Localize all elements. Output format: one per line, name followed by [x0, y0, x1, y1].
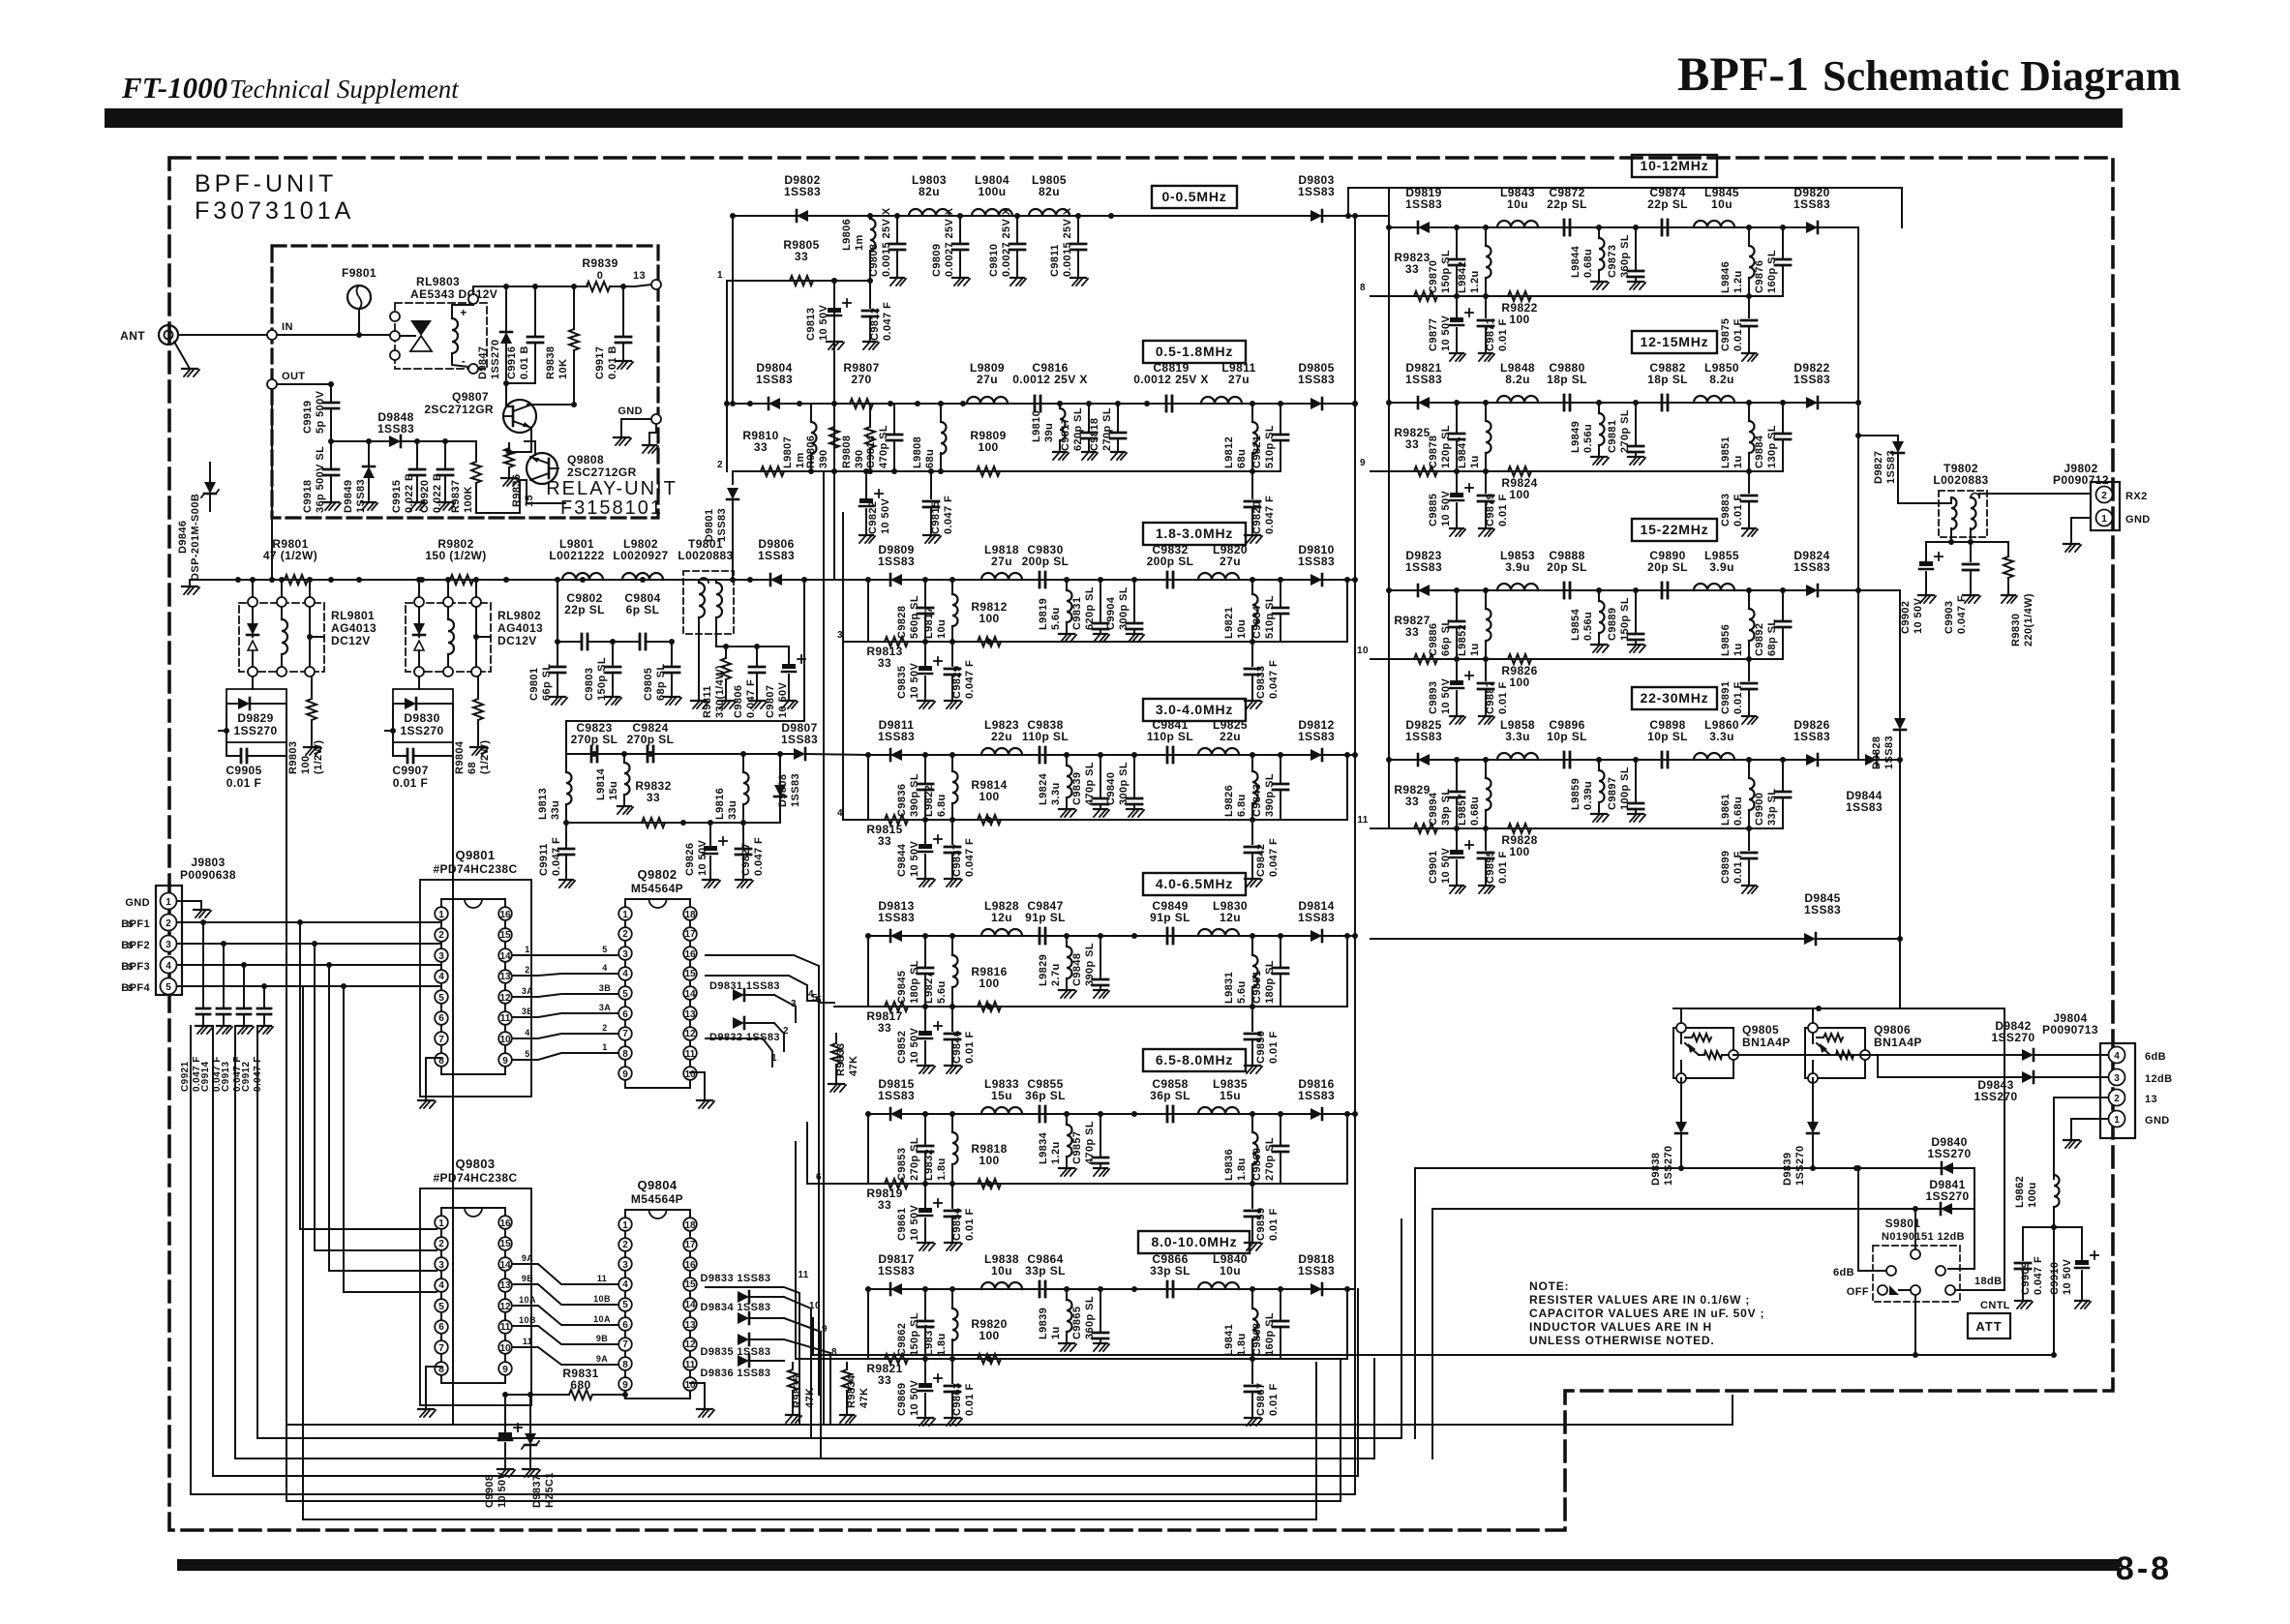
zener D9837 HZ5C1 [522, 1392, 556, 1508]
inductor L9834 1.2u [1038, 1114, 1076, 1176]
L9862 lower rail [2023, 1207, 2082, 1230]
svg-text:360p SL: 360p SL [1084, 1296, 1096, 1339]
svg-text:M54564P: M54564P [631, 882, 683, 895]
IC Q9803 uPD74HC238C [433, 1157, 517, 1383]
svg-text:10u: 10u [991, 1264, 1012, 1278]
svg-text:33: 33 [1405, 795, 1419, 808]
svg-text:300p SL: 300p SL [1118, 762, 1130, 805]
svg-text:47 (1/2W): 47 (1/2W) [263, 549, 317, 562]
svg-text:R9839: R9839 [582, 256, 618, 270]
resistor R9819 33 [866, 1179, 908, 1212]
svg-text:C9854: C9854 [951, 1207, 963, 1241]
J9803 pin 2 BPF1 [121, 915, 441, 931]
capacitor C9885 10 50V [1428, 471, 1473, 536]
svg-text:16: 16 [499, 1218, 511, 1229]
RL9802 top wires [416, 577, 479, 597]
svg-text:C9848: C9848 [1071, 953, 1083, 986]
svg-text:270p SL: 270p SL [1619, 409, 1631, 453]
inductor L9849 0.56u [1570, 403, 1609, 465]
svg-text:13: 13 [499, 972, 511, 982]
svg-text:+: + [460, 306, 467, 319]
switch lever wire [1914, 1209, 1916, 1249]
capacitor C9904 300p SL [1105, 580, 1144, 642]
svg-text:1SS83: 1SS83 [1298, 911, 1335, 924]
freq label 1.8-3.0MHz [1143, 523, 1246, 545]
svg-text:C9815: C9815 [930, 501, 942, 534]
svg-text:2: 2 [622, 929, 628, 940]
svg-text:2: 2 [525, 965, 529, 975]
capacitor C9836 390p SL [896, 755, 933, 820]
svg-text:0.01 F: 0.01 F [1733, 494, 1744, 526]
wire upper rail to D9807 [566, 751, 794, 757]
inductor L9847 1u [1457, 403, 1492, 471]
connector J9803 P0090638 [156, 856, 236, 995]
svg-text:9: 9 [502, 1365, 508, 1375]
inductor L9832 1.8u [923, 1114, 958, 1184]
diode D9843 1SS270 on 12dB wire [1865, 1055, 2108, 1103]
13 wire to L9862 [2054, 1098, 2108, 1179]
node 2 [717, 460, 723, 470]
svg-text:C9805: C9805 [643, 668, 654, 701]
svg-text:5: 5 [438, 1302, 444, 1312]
svg-text:R9837: R9837 [450, 480, 462, 513]
svg-text:1.8-3.0MHz: 1.8-3.0MHz [1156, 526, 1233, 541]
diode D9824 1SS83 [1793, 549, 1830, 596]
svg-text:R9834: R9834 [846, 1374, 858, 1408]
diode D9808 1SS83 [774, 754, 801, 823]
svg-text:390: 390 [854, 449, 865, 468]
freq label 15-22MHz [1632, 519, 1717, 541]
svg-text:0.01 F: 0.01 F [1733, 851, 1744, 884]
svg-text:12: 12 [684, 1029, 696, 1039]
svg-text:1SS83: 1SS83 [781, 733, 818, 746]
svg-text:C9912: C9912 [241, 1061, 252, 1092]
resistor R9837 100K [450, 441, 481, 513]
pin OUT [267, 371, 305, 389]
fuse F9801 [342, 266, 377, 335]
CNTL label [1980, 1300, 2010, 1311]
svg-text:0.01 F: 0.01 F [964, 1031, 976, 1064]
svg-text:OFF: OFF [1847, 1286, 1869, 1298]
svg-text:13: 13 [499, 1280, 511, 1291]
svg-text:47K: 47K [848, 1056, 859, 1076]
svg-text:C9860: C9860 [1251, 1148, 1263, 1181]
svg-text:68: 68 [467, 762, 478, 774]
svg-text:L9814: L9814 [595, 767, 607, 800]
capacitor C9835 10 50V [896, 642, 942, 708]
capacitor C9898 10p SL [1647, 718, 1688, 767]
diode D9841 1SS270 [1925, 1178, 1969, 1215]
svg-text:200p SL: 200p SL [1022, 555, 1070, 568]
svg-text:RL9803: RL9803 [416, 275, 460, 288]
svg-text:C9893: C9893 [1428, 681, 1439, 714]
R9837 to Q9808 base wire [476, 480, 527, 513]
svg-text:L9819: L9819 [1038, 598, 1049, 630]
svg-text:C9875: C9875 [1720, 318, 1732, 351]
svg-text:5: 5 [166, 982, 171, 993]
svg-text:10 50V: 10 50V [777, 681, 789, 718]
svg-text:12u: 12u [1220, 911, 1241, 924]
svg-text:1SS83: 1SS83 [878, 555, 915, 568]
svg-text:F3073101A: F3073101A [195, 197, 354, 225]
svg-text:BPF3: BPF3 [121, 961, 150, 973]
capacitor C9908 10 50V [484, 1392, 522, 1508]
svg-text:C9869: C9869 [896, 1383, 908, 1416]
capacitor C9863 0.047 F [945, 1359, 976, 1426]
svg-text:20p SL: 20p SL [1547, 560, 1587, 574]
inductor L9840 10u [1198, 1252, 1248, 1289]
diode D9849 1SS83 [343, 441, 377, 513]
svg-text:GND: GND [125, 897, 150, 909]
svg-text:1.2u: 1.2u [1050, 1141, 1062, 1164]
svg-text:8: 8 [1360, 283, 1366, 293]
svg-text:C9812: C9812 [869, 308, 881, 341]
svg-text:100p SL: 100p SL [1619, 767, 1631, 810]
transistor Q9808 2SC2712GR [527, 453, 637, 484]
svg-text:#PD74HC238C: #PD74HC238C [433, 862, 517, 876]
capacitor C9920 0.022 B [419, 441, 455, 513]
svg-text:9: 9 [1360, 458, 1366, 468]
svg-text:C9833: C9833 [1255, 666, 1267, 699]
capacitor C9882 18p SL [1647, 361, 1688, 410]
resistor R9838 10K [545, 286, 579, 400]
svg-text:1SS270: 1SS270 [1925, 1189, 1969, 1203]
svg-text:390: 390 [818, 449, 829, 468]
svg-text:11: 11 [685, 1049, 696, 1060]
svg-text:0.01 F: 0.01 F [393, 776, 428, 790]
svg-text:L9827: L9827 [923, 972, 935, 1004]
svg-text:BPF-UNIT: BPF-UNIT [195, 170, 337, 197]
svg-text:L9852: L9852 [1457, 624, 1468, 656]
svg-text:0.047 F: 0.047 F [964, 838, 976, 877]
svg-text:L9831: L9831 [1223, 972, 1235, 1004]
capacitor C9880 18p SL [1547, 361, 1587, 410]
resistor R9805 33 [783, 238, 873, 286]
diode D9813 1SS83 [878, 899, 915, 942]
diode D9805 1SS83 [1298, 361, 1335, 409]
diode D9834 1SS83 [701, 1302, 784, 1324]
diode D9822 1SS83 [1793, 361, 1830, 408]
svg-text:8-8: 8-8 [2116, 1550, 2172, 1587]
svg-text:0.0015 25V X: 0.0015 25V X [1062, 207, 1073, 277]
inductor L9841 1.8u [1223, 1289, 1258, 1359]
capacitor C9878 120p SL [1428, 403, 1464, 471]
capacitor C9917 0.01 B [594, 284, 633, 379]
svg-text:L9854: L9854 [1570, 608, 1582, 641]
svg-text:0.56u: 0.56u [1582, 424, 1594, 453]
capacitor C9838 110p SL [1022, 718, 1069, 763]
right rows right edge bus [1855, 227, 1861, 760]
svg-text:L9807: L9807 [782, 436, 794, 468]
svg-text:1SS83: 1SS83 [1804, 903, 1841, 917]
resistor R9807 270 [843, 361, 879, 408]
svg-text:100: 100 [979, 1329, 999, 1342]
capacitor C9901 10 50V [1428, 828, 1473, 893]
capacitor C9921 0.047 F [180, 919, 213, 1092]
capacitor C9873 360p SL [1607, 227, 1645, 289]
left riser 243 [234, 1026, 236, 1459]
svg-text:10: 10 [684, 1380, 696, 1391]
svg-text:0.047 F: 0.047 F [1268, 660, 1280, 699]
svg-text:L9826: L9826 [1223, 785, 1235, 817]
row 6.5-8.0MHz lower rail [834, 1111, 1350, 1187]
svg-text:0.68u: 0.68u [1469, 797, 1481, 826]
T9802 secondary to J9802 [1979, 494, 2091, 497]
svg-text:33: 33 [878, 1373, 891, 1387]
inductor L9848 8.2u [1497, 361, 1538, 403]
svg-text:3A: 3A [522, 986, 533, 996]
svg-text:5p 500V: 5p 500V [315, 390, 326, 434]
J9803 pin 3 BPF2 [121, 936, 441, 952]
capacitor C9860 270p SL [1251, 1114, 1288, 1184]
svg-text:NOTE:: NOTE: [1529, 1279, 1569, 1293]
svg-text:BPF2: BPF2 [121, 940, 150, 951]
freq label 12-15MHz [1632, 331, 1717, 353]
svg-text:13: 13 [633, 270, 646, 282]
svg-text:0.047 F: 0.047 F [551, 837, 562, 876]
svg-text:D9831 1SS83: D9831 1SS83 [709, 980, 780, 992]
svg-text:18: 18 [684, 910, 696, 920]
svg-text:10A: 10A [519, 1295, 536, 1305]
diode D9817 1SS83 [878, 1252, 915, 1295]
svg-text:33p SL: 33p SL [1150, 1264, 1190, 1278]
svg-text:2.7u: 2.7u [1050, 963, 1062, 986]
svg-text:L9849: L9849 [1570, 421, 1582, 453]
svg-text:1: 1 [438, 1218, 444, 1229]
svg-text:10 50V: 10 50V [497, 1471, 508, 1508]
control wire risers [1415, 1168, 1432, 1459]
inductor L9807 1m shunt [782, 404, 817, 471]
svg-text:L9821: L9821 [1223, 607, 1235, 639]
svg-text:10-12MHz: 10-12MHz [1641, 158, 1709, 173]
svg-text:AG4013: AG4013 [331, 621, 377, 635]
svg-text:Q9805: Q9805 [1742, 1023, 1779, 1037]
svg-text:10 50V: 10 50V [880, 497, 891, 534]
resistor R9817 33 [866, 1002, 908, 1035]
svg-text:2: 2 [2101, 491, 2107, 501]
svg-text:22u: 22u [991, 730, 1012, 743]
svg-text:5.6u: 5.6u [1236, 980, 1248, 1004]
svg-text:91p SL: 91p SL [1150, 911, 1190, 924]
left riser 220 [212, 1026, 214, 1476]
svg-text:AG4013: AG4013 [497, 621, 543, 635]
svg-text:C9811: C9811 [1049, 244, 1061, 277]
row 4.0-6.5MHz lower rail [834, 933, 1350, 1009]
capacitor C9887 0.01 F [1478, 659, 1509, 724]
svg-text:BPF1: BPF1 [121, 918, 150, 930]
svg-text:BPF4: BPF4 [121, 982, 150, 994]
left riser 266 [256, 1026, 258, 1438]
svg-text:DC12V: DC12V [331, 634, 371, 647]
svg-text:2: 2 [166, 918, 171, 929]
svg-text:L9859: L9859 [1570, 778, 1582, 810]
x1400 bus to bottom [1355, 1289, 1374, 1494]
resistor R9812 100 [971, 600, 1007, 647]
capacitor C9811 0.0015 25V X [1049, 207, 1088, 286]
inductor L9858 3.3u [1497, 718, 1538, 760]
svg-text:L9822: L9822 [923, 785, 935, 817]
svg-text:L0020883: L0020883 [678, 549, 733, 562]
svg-text:C9919: C9919 [302, 401, 314, 434]
svg-text:7: 7 [622, 1339, 628, 1350]
resistor R9802 150 (1/2W) [425, 537, 486, 585]
resistor R9813 33 [866, 637, 908, 670]
inductor L9844 0.68u [1570, 227, 1609, 289]
svg-text:L9806: L9806 [841, 219, 853, 251]
RL9802 pins [414, 597, 481, 677]
capacitor C9864 33p SL [1025, 1252, 1066, 1297]
svg-text:6.8u: 6.8u [936, 794, 948, 817]
capacitor C9847 91p SL [1025, 899, 1066, 944]
svg-text:C9887: C9887 [1485, 681, 1496, 714]
capacitor C9854 0.047 F [945, 1184, 976, 1250]
svg-text:33p SL: 33p SL [1025, 1264, 1066, 1278]
diode D9818 1SS83 [1298, 1252, 1335, 1295]
row 8.0-10.0MHz lower rail [834, 1286, 1350, 1362]
svg-text:0.022 B: 0.022 B [432, 473, 443, 513]
svg-text:C9801: C9801 [528, 668, 540, 701]
svg-text:0.0015 25V X: 0.0015 25V X [881, 207, 892, 277]
svg-text:1SS83: 1SS83 [1405, 730, 1442, 743]
inductor L9846 1.2u [1720, 227, 1755, 296]
svg-text:16: 16 [684, 1260, 696, 1271]
pin IN [267, 321, 293, 340]
svg-text:17: 17 [684, 1240, 696, 1250]
footer bar [177, 1559, 2120, 1571]
svg-text:C9878: C9878 [1428, 436, 1439, 468]
NOTE text [1529, 1279, 1764, 1347]
svg-text:270p SL: 270p SL [1264, 1137, 1276, 1181]
capacitor C9843 390p SL [1251, 755, 1288, 820]
capacitor C9884 130p SL [1754, 403, 1791, 471]
capacitor C9859 right [1245, 1184, 1280, 1250]
capacitor C9876 160p SL [1754, 227, 1791, 296]
svg-text:33u: 33u [550, 800, 561, 820]
svg-text:C9907: C9907 [392, 764, 428, 777]
Q9804 out wire 9 [784, 1318, 828, 1347]
svg-text:C9835: C9835 [896, 666, 908, 699]
resistor R9823 33 [1394, 251, 1437, 301]
inductor L9819 5.6u [1038, 580, 1076, 642]
svg-text:390p SL: 390p SL [909, 773, 920, 817]
svg-text:110p SL: 110p SL [1022, 730, 1069, 743]
svg-text:C9902: C9902 [1900, 601, 1912, 634]
inductor L9854 0.56u [1570, 590, 1609, 652]
svg-text:C9892: C9892 [1754, 623, 1765, 656]
capacitor C9862 150p SL [896, 1289, 933, 1359]
svg-text:3: 3 [622, 1260, 628, 1271]
svg-text:130p SL: 130p SL [1766, 425, 1778, 468]
Q9803 gnd [418, 1367, 441, 1417]
IC Q9801 uPD74HC238C [433, 848, 517, 1074]
svg-text:0.01 F: 0.01 F [1733, 681, 1744, 714]
svg-text:D9834 1SS83: D9834 1SS83 [701, 1302, 771, 1313]
attenuator top wire [1673, 1006, 2004, 1011]
svg-text:C9868: C9868 [1251, 1323, 1263, 1356]
svg-text:C9909: C9909 [2020, 1262, 2032, 1295]
svg-text:C9853: C9853 [896, 1148, 908, 1181]
J9804 pin 2 13 [2109, 1090, 2158, 1106]
svg-text:150 (1/2W): 150 (1/2W) [425, 549, 486, 562]
svg-text:5: 5 [622, 989, 628, 1000]
inductor L9802 L0020927 [613, 537, 668, 580]
svg-text:0.01 F: 0.01 F [1733, 318, 1744, 351]
svg-text:11: 11 [500, 1013, 511, 1024]
capacitor C9831 620p SL [1071, 580, 1109, 642]
Q9807 emitter to Q9808 [509, 428, 531, 452]
capacitor C9806 0.047 F [733, 647, 767, 718]
svg-text:100: 100 [979, 612, 999, 625]
inductor L9804 100u [972, 173, 1012, 216]
svg-text:8.0-10.0MHz: 8.0-10.0MHz [1152, 1234, 1238, 1249]
svg-text:10u: 10u [936, 619, 948, 639]
svg-text:6dB: 6dB [2145, 1051, 2166, 1063]
svg-text:C9891: C9891 [1720, 681, 1732, 714]
Q9804 out wire 8 [784, 1339, 837, 1368]
svg-text:C9920: C9920 [419, 480, 431, 513]
svg-text:100: 100 [1509, 488, 1529, 501]
svg-text:10 50V: 10 50V [1440, 490, 1452, 526]
svg-text:L9834: L9834 [1038, 1131, 1049, 1164]
svg-text:L9837: L9837 [923, 1324, 935, 1356]
svg-text:0.01 B: 0.01 B [519, 346, 530, 379]
node 11 [1357, 815, 1368, 826]
svg-text:390p SL: 390p SL [1264, 773, 1276, 817]
svg-text:3B: 3B [522, 1007, 533, 1016]
capacitor C9866 33p SL [1150, 1252, 1190, 1297]
relay lower rail [328, 438, 476, 444]
svg-text:C9879: C9879 [1485, 494, 1496, 526]
capacitor C9877 10 50V [1428, 296, 1473, 361]
diode D9844 1SS83 [1846, 754, 1903, 814]
RL9801 top wires [250, 577, 313, 597]
svg-text:3.3u: 3.3u [1050, 782, 1062, 805]
svg-text:9: 9 [822, 1324, 828, 1335]
svg-text:22u: 22u [1220, 730, 1241, 743]
svg-text:1SS83: 1SS83 [1298, 730, 1335, 743]
svg-text:0.01 F: 0.01 F [964, 1208, 976, 1241]
svg-text:12: 12 [499, 993, 511, 1004]
capacitor C9844 10 50V [896, 820, 942, 887]
row2 lower rail [733, 468, 1281, 474]
svg-text:150p SL: 150p SL [909, 1312, 920, 1356]
svg-text:C9885: C9885 [1428, 494, 1439, 526]
svg-text:620p SL: 620p SL [1084, 586, 1096, 630]
T9802 bottom rail [1926, 539, 2008, 545]
svg-text:L9842: L9842 [1457, 261, 1468, 293]
svg-text:6dB: 6dB [1833, 1267, 1854, 1278]
IC Q9801 uPD74HC238C outer box [420, 880, 531, 1097]
svg-text:D9808: D9808 [777, 774, 789, 807]
svg-text:100: 100 [300, 755, 312, 774]
Q9801-Q9802 interconnect wires [512, 945, 618, 1060]
svg-text:15: 15 [684, 1279, 696, 1290]
svg-text:27u: 27u [1220, 555, 1241, 568]
svg-text:2: 2 [438, 1239, 444, 1249]
IC-row wire 1 [706, 1038, 777, 1067]
svg-text:C9822: C9822 [867, 501, 879, 534]
svg-text:1.2u: 1.2u [1733, 270, 1744, 293]
svg-text:L9813: L9813 [537, 788, 549, 820]
svg-text:C9844: C9844 [896, 843, 908, 877]
capacitor C9808 0.0015 25V X [868, 207, 906, 286]
Q9802 left labels [599, 945, 611, 1052]
svg-text:1SS83: 1SS83 [1405, 197, 1442, 211]
svg-text:C9870: C9870 [1428, 260, 1439, 293]
J9803 pin 4 BPF3 [121, 957, 441, 974]
svg-text:33: 33 [878, 1021, 891, 1035]
relay RL9802 box [406, 603, 543, 672]
